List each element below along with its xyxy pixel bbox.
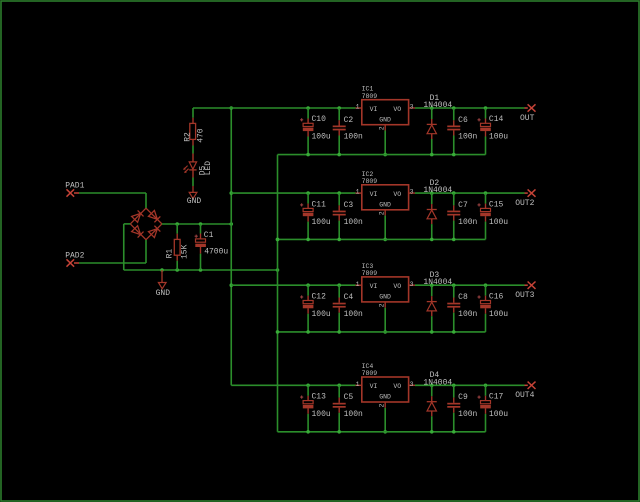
svg-text:3: 3	[410, 281, 414, 288]
junction C3 bottom	[337, 238, 341, 242]
node OUT4 (unconnected pin)	[515, 382, 535, 401]
junction C11 bottom	[306, 238, 310, 242]
junction R1 bottom	[175, 268, 179, 272]
junction GND stub	[160, 268, 164, 272]
junction D3 top	[430, 283, 434, 287]
node OUT3 (unconnected pin)	[515, 282, 535, 301]
wire row3 input rail	[231, 284, 355, 286]
svg-text:3: 3	[410, 189, 414, 196]
svg-text:7809: 7809	[362, 93, 378, 100]
junction C5 bottom	[337, 430, 341, 434]
IC4 pin 3	[409, 381, 415, 388]
svg-text:1: 1	[356, 381, 360, 388]
svg-text:100n: 100n	[344, 133, 363, 142]
wire bridge ground rail (y=270)	[124, 269, 278, 271]
diode D2 1N4004	[423, 179, 452, 240]
svg-text:OUT2: OUT2	[515, 199, 534, 208]
junction D4 top	[430, 384, 434, 388]
pad PAD1	[65, 182, 84, 197]
junction C10 top	[306, 106, 310, 110]
svg-text:100n: 100n	[458, 133, 477, 142]
svg-text:1N4004: 1N4004	[423, 378, 452, 387]
svg-text:1N4004: 1N4004	[423, 101, 452, 110]
junction bus B / row3 ground rail	[276, 330, 280, 334]
junction C1 top	[199, 222, 203, 226]
svg-text:1N4004: 1N4004	[423, 278, 452, 287]
junction C2 top	[337, 106, 341, 110]
wire row2 output rail	[415, 192, 525, 194]
svg-text:2: 2	[378, 404, 385, 408]
IC2 pin 1	[356, 189, 362, 196]
IC3 pin 1	[356, 281, 362, 288]
capacitor C4 100n	[333, 285, 363, 332]
wire gnd bus B (x=277.5)	[277, 155, 279, 432]
junction R1 top	[175, 222, 179, 226]
svg-text:C1: C1	[204, 231, 214, 240]
junction C14 top	[484, 106, 488, 110]
capacitor C6 100n	[447, 108, 477, 155]
junction C15 top	[484, 191, 488, 195]
svg-text:VI: VI	[370, 283, 378, 290]
junction C11 top	[306, 191, 310, 195]
junction C4 bottom	[337, 330, 341, 334]
junction C12 bottom	[306, 330, 310, 334]
junction IC2 pin 2 / ground rail	[383, 238, 387, 242]
wire row3 output rail	[415, 284, 525, 286]
wire bridge left vertex to ground rail	[124, 224, 131, 270]
junction bus A / row1 input	[229, 106, 233, 110]
junction IC3 pin 2 / ground rail	[383, 330, 387, 334]
junction D3 bottom	[430, 330, 434, 334]
svg-text:C4: C4	[344, 293, 354, 302]
svg-text:C13: C13	[312, 393, 327, 402]
svg-text:100u: 100u	[489, 410, 508, 419]
diode D3 1N4004	[423, 271, 452, 332]
diode D1 1N4004	[423, 94, 452, 155]
capacitor C17 100u (electrolytic)	[478, 385, 509, 432]
svg-text:100n: 100n	[344, 310, 363, 319]
regulator IC3 7809	[362, 263, 409, 302]
bridge diode bottom-left	[132, 226, 144, 238]
svg-text:470: 470	[196, 128, 205, 143]
resistor R2 470	[184, 108, 206, 146]
svg-text:VO: VO	[393, 191, 401, 198]
svg-text:C8: C8	[458, 293, 468, 302]
wire row2 ground rail	[278, 238, 486, 240]
svg-text:100u: 100u	[312, 133, 331, 142]
svg-text:4700u: 4700u	[204, 248, 228, 257]
LED D5	[183, 154, 213, 178]
junction C13 top	[306, 384, 310, 388]
svg-text:IC3: IC3	[362, 263, 374, 270]
pad PAD2	[65, 252, 84, 267]
regulator IC4 7809	[362, 363, 409, 402]
wire row3 ground rail	[278, 331, 486, 333]
IC4 pin 1	[356, 381, 362, 388]
svg-text:100n: 100n	[344, 218, 363, 227]
ground symbol below bridge rail	[156, 270, 171, 298]
svg-text:2: 2	[378, 303, 385, 307]
svg-text:100u: 100u	[312, 410, 331, 419]
wire PAD2 to bridge bottom	[79, 240, 146, 263]
svg-text:2: 2	[378, 126, 385, 130]
junction C7 top	[452, 191, 456, 195]
junction D1 bottom	[430, 153, 434, 157]
capacitor C9 100n	[447, 385, 477, 432]
capacitor C14 100u (electrolytic)	[478, 108, 509, 155]
svg-text:GND: GND	[379, 202, 391, 209]
svg-text:7809: 7809	[362, 370, 378, 377]
wire R2 to LED	[192, 146, 194, 154]
svg-text:PAD1: PAD1	[65, 182, 84, 191]
junction C2 bottom	[337, 153, 341, 157]
svg-text:IC4: IC4	[362, 363, 374, 370]
IC1 pin 1	[356, 104, 362, 111]
svg-text:15K: 15K	[180, 244, 189, 259]
svg-text:100u: 100u	[489, 310, 508, 319]
svg-text:C6: C6	[458, 116, 468, 125]
svg-text:C15: C15	[489, 200, 504, 209]
junction IC1 pin 2 / ground rail	[383, 153, 387, 157]
svg-text:C3: C3	[344, 201, 354, 210]
IC1 pin 3	[409, 104, 415, 111]
svg-text:1: 1	[356, 281, 360, 288]
svg-text:C10: C10	[312, 115, 327, 124]
svg-text:C14: C14	[489, 115, 504, 124]
svg-text:3: 3	[410, 381, 414, 388]
junction C1 bottom	[199, 268, 203, 272]
capacitor C10 100u (electrolytic)	[300, 108, 331, 155]
svg-text:C12: C12	[312, 292, 327, 301]
svg-text:100n: 100n	[344, 410, 363, 419]
IC2 pin 2 wire to ground rail	[378, 210, 385, 240]
junction D4 bottom	[430, 430, 434, 434]
svg-text:100u: 100u	[489, 218, 508, 227]
bridge diode top-left	[132, 210, 144, 222]
svg-text:VO: VO	[393, 283, 401, 290]
svg-text:1N4004: 1N4004	[423, 186, 452, 195]
wire row1 ground rail	[278, 154, 486, 156]
capacitor C12 100u (electrolytic)	[300, 285, 331, 332]
IC3 pin 2 wire to ground rail	[378, 302, 385, 332]
wire bridge + rail (y=224)	[162, 223, 231, 225]
capacitor C8 100n	[447, 285, 477, 332]
junction C13 bottom	[306, 430, 310, 434]
svg-text:OUT4: OUT4	[515, 391, 534, 400]
svg-text:C7: C7	[458, 201, 468, 210]
svg-text:100u: 100u	[312, 310, 331, 319]
junction ground rail / bus B	[276, 268, 280, 272]
junction D1 top	[430, 106, 434, 110]
junction D2 bottom	[430, 238, 434, 242]
svg-text:VO: VO	[393, 106, 401, 113]
IC2 pin 3	[409, 189, 415, 196]
wire row1 output rail	[415, 107, 525, 109]
junction C17 top	[484, 384, 488, 388]
svg-text:C17: C17	[489, 393, 504, 402]
junction C8 top	[452, 283, 456, 287]
svg-text:3: 3	[410, 104, 414, 111]
svg-text:100n: 100n	[458, 310, 477, 319]
junction C3 top	[337, 191, 341, 195]
regulator IC2 7809	[362, 171, 409, 210]
junction bus B / row2 ground rail	[276, 238, 280, 242]
junction C16 top	[484, 283, 488, 287]
svg-text:100u: 100u	[312, 218, 331, 227]
junction C10 bottom	[306, 153, 310, 157]
regulator IC1 7809	[362, 86, 409, 125]
svg-text:OUT: OUT	[520, 114, 535, 123]
svg-text:GND: GND	[156, 289, 171, 298]
capacitor C1 4700u	[195, 224, 229, 270]
svg-text:100u: 100u	[489, 133, 508, 142]
node OUT (unconnected pin)	[520, 104, 536, 123]
capacitor C7 100n	[447, 193, 477, 239]
wire PAD1 to bridge top	[79, 193, 146, 208]
wire row1 input rail	[193, 107, 356, 109]
junction IC4 pin 2 / ground rail	[383, 430, 387, 434]
resistor R1 15K	[166, 224, 190, 270]
junction C6 top	[452, 106, 456, 110]
svg-text:R1: R1	[166, 249, 175, 259]
bridge diode bottom-right	[148, 226, 160, 238]
junction bus B / row2 ground rail	[276, 238, 280, 242]
svg-text:GND: GND	[379, 394, 391, 401]
junction C7 bottom	[452, 238, 456, 242]
IC4 pin 2 wire to ground rail	[378, 402, 385, 432]
svg-text:PAD2: PAD2	[65, 252, 84, 261]
junction C4 top	[337, 283, 341, 287]
svg-text:1: 1	[356, 189, 360, 196]
node OUT2 (unconnected pin)	[515, 189, 535, 208]
wire row4 output rail	[415, 384, 525, 386]
IC3 pin 3	[409, 281, 415, 288]
svg-text:C9: C9	[458, 393, 468, 402]
svg-text:LED: LED	[204, 161, 213, 176]
svg-text:1: 1	[356, 104, 360, 111]
svg-text:GND: GND	[187, 197, 202, 206]
diode D4 1N4004	[423, 371, 452, 432]
svg-text:7809: 7809	[362, 270, 378, 277]
svg-text:GND: GND	[379, 294, 391, 301]
svg-text:VI: VI	[370, 106, 378, 113]
svg-text:C5: C5	[344, 393, 354, 402]
capacitor C13 100u (electrolytic)	[300, 385, 331, 432]
junction C9 bottom	[452, 430, 456, 434]
capacitor C2 100n	[333, 108, 363, 155]
svg-text:VI: VI	[370, 191, 378, 198]
capacitor C11 100u (electrolytic)	[300, 193, 331, 239]
bridge diode top-right	[148, 210, 160, 222]
junction + rail / bus A	[229, 222, 233, 226]
svg-text:2: 2	[378, 211, 385, 215]
svg-text:100n: 100n	[458, 410, 477, 419]
capacitor C16 100u (electrolytic)	[478, 285, 509, 332]
svg-text:C16: C16	[489, 292, 504, 301]
junction bus A / row3 input	[229, 283, 233, 287]
wire + bus A (x=231)	[230, 108, 232, 385]
bridge rectifier frame (diamond)	[130, 208, 162, 240]
svg-text:R2: R2	[184, 132, 193, 142]
svg-text:100n: 100n	[458, 218, 477, 227]
svg-text:C11: C11	[312, 200, 327, 209]
junction C9 top	[452, 384, 456, 388]
junction D2 top	[430, 191, 434, 195]
svg-text:GND: GND	[379, 116, 391, 123]
capacitor C5 100n	[333, 385, 363, 432]
svg-text:7809: 7809	[362, 178, 378, 185]
svg-text:VO: VO	[393, 383, 401, 390]
capacitor C15 100u (electrolytic)	[478, 193, 509, 239]
svg-text:OUT3: OUT3	[515, 291, 534, 300]
svg-text:C2: C2	[344, 116, 354, 125]
svg-text:IC2: IC2	[362, 171, 374, 178]
junction C12 top	[306, 283, 310, 287]
ground symbol below LED	[187, 186, 202, 206]
wire LED to ground	[192, 178, 194, 187]
wire row4 input rail	[231, 384, 355, 386]
wire row2 input rail	[231, 192, 355, 194]
junction bus A / row2 input	[229, 191, 233, 195]
wire row4 ground rail	[278, 431, 486, 433]
junction C5 top	[337, 384, 341, 388]
capacitor C3 100n	[333, 193, 363, 239]
junction C8 bottom	[452, 330, 456, 334]
svg-text:IC1: IC1	[362, 86, 374, 93]
svg-text:VI: VI	[370, 383, 378, 390]
IC1 pin 2 wire to ground rail	[378, 125, 385, 155]
junction C6 bottom	[452, 153, 456, 157]
